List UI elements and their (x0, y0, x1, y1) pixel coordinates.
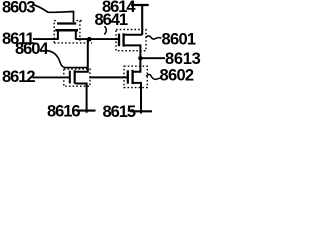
junction node dot 8613 (138, 56, 142, 60)
wire from Q8604 region to gate of Q8602 (89, 76, 127, 78)
transistor Q8604 drain lead up to node (76, 39, 88, 72)
terminal 8615 crossbar with label tick (130, 110, 152, 112)
transistor Q8602 source lead down to terminal 8615 (133, 83, 141, 114)
squiggle leader from Q8602 to label 8602 (146, 74, 161, 79)
transistor Q8603 left source/drain leg (57, 30, 59, 40)
junction node dot (8611 / Q8604 drain / Q8641 gate) (87, 37, 92, 42)
svg-text:8641: 8641 (95, 11, 128, 29)
wire 8611 from label to Q8603 left leg (33, 38, 59, 40)
transistor Q8604 channel bar (74, 70, 76, 84)
transistor Q8604 gate bar (69, 71, 71, 84)
wire 8612 to gate of Q8604 (33, 76, 70, 78)
transistor Q8602 drain lead from 8613 node (133, 58, 140, 71)
terminal 8616 crossbar with label tick (77, 110, 96, 112)
svg-text:8602: 8602 (160, 67, 194, 85)
wire 8613 (140, 57, 165, 59)
dotted box around Q8604 (64, 69, 90, 86)
transistor Q8641 drain lead to 8614 wire (124, 34, 142, 36)
transistor Q8603 gate bar (57, 22, 76, 24)
terminal 8614 crossbar with label tick (131, 4, 149, 6)
svg-text:8616: 8616 (47, 102, 80, 120)
transistor Q8641 gate bar (118, 34, 120, 47)
dotted box around Q8603 (54, 21, 56, 43)
transistor Q8603 channel bar (55, 29, 78, 32)
dotted box around Q8602 (124, 66, 147, 87)
svg-text:8604: 8604 (15, 40, 49, 58)
transistor Q8602 channel bar (131, 70, 133, 84)
transistor Q8641 channel bar (122, 33, 124, 46)
transistor Q8604 source lead down to terminal 8616 (76, 84, 87, 113)
transistor Q8602 gate bar (127, 70, 129, 83)
svg-text:8612: 8612 (2, 68, 35, 86)
transistor Q8603 right source/drain leg (75, 30, 77, 40)
transistor Q8641 source lead down to 8613 node (124, 45, 140, 58)
svg-text:8603: 8603 (2, 0, 35, 16)
wire 8611 from Q8603 right leg to gate of Q8641 (76, 38, 118, 40)
svg-text:8613: 8613 (165, 50, 201, 68)
svg-text:8615: 8615 (103, 103, 136, 120)
squiggle leader from Q8641 to label 8601 (146, 36, 162, 39)
dotted box around Q8641 (116, 30, 146, 51)
wire 8614 down to drain of Q8641 (141, 5, 143, 35)
svg-text:8601: 8601 (162, 30, 196, 48)
leader line from 8641 to dotted box of Q8641 (104, 26, 106, 34)
leader line from 8604 to drain lead of Q8604 (47, 50, 88, 67)
leader line from 8603 to gate of Q8603 (34, 5, 74, 23)
